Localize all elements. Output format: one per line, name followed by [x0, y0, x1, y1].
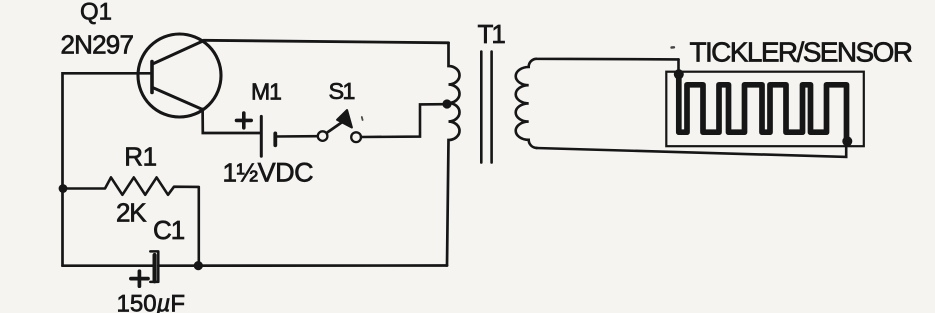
transistor Q1 [138, 34, 221, 117]
node T1 tap dot [442, 99, 451, 108]
wire base lead and left rail [63, 73, 153, 265]
switch S1 contact left [318, 131, 328, 141]
transistor Q1 emitter [153, 88, 203, 110]
node R1 left junction dot [59, 184, 68, 193]
battery M1 long plate [260, 116, 263, 156]
svg-text:S1: S1 [329, 78, 355, 104]
svg-text:2N297: 2N297 [61, 30, 134, 60]
speck above tickler label [672, 46, 675, 49]
svg-text:C1: C1 [153, 215, 185, 245]
capacitor C1 thick plate [153, 255, 157, 281]
wire switch to T1 tap [361, 104, 444, 137]
wire collector to T1 top [204, 40, 449, 43]
svg-text:TICKLER/SENSOR: TICKLER/SENSOR [690, 36, 912, 67]
transformer T1 primary winding [447, 43, 460, 266]
tickler sensor outline [666, 72, 864, 147]
wire bottom rail left of C1 [63, 264, 153, 267]
svg-text:150µF: 150µF [117, 291, 186, 313]
switch S1 arrowhead [337, 110, 352, 127]
node sensor top-left dot [674, 69, 684, 79]
speck near switch S1 [361, 117, 364, 120]
wire secondary top to sensor dot [677, 59, 680, 71]
transistor Q1 base bar [150, 62, 154, 93]
wire battery to switch [275, 135, 317, 138]
svg-text:2K: 2K [116, 198, 147, 228]
capacitor C1 bracket plate [150, 251, 158, 282]
wire emitter to battery [203, 109, 260, 133]
svg-text:1½VDC: 1½VDC [223, 158, 314, 188]
transformer T1 core [481, 52, 491, 163]
svg-text:R1: R1 [124, 142, 156, 172]
svg-text:M1: M1 [251, 79, 281, 105]
svg-text:Q1: Q1 [80, 0, 112, 26]
switch S1 contact right [351, 132, 361, 142]
transformer T1 secondary winding [516, 59, 679, 148]
node sensor bottom-right dot [842, 136, 852, 146]
transistor Q1 collector [153, 41, 205, 65]
battery M1 short plate [273, 133, 277, 145]
resistor R1 [63, 177, 199, 265]
wire secondary bottom return [536, 142, 846, 157]
node C1 right junction dot [194, 261, 203, 270]
capacitor C1 plus sign [131, 271, 148, 286]
tickler sensor serpentine trace [679, 75, 847, 142]
wire bottom rail right of C1 [158, 264, 447, 267]
svg-text:T1: T1 [478, 19, 506, 49]
battery M1 plus sign [237, 113, 252, 128]
switch S1 arm [327, 122, 343, 133]
